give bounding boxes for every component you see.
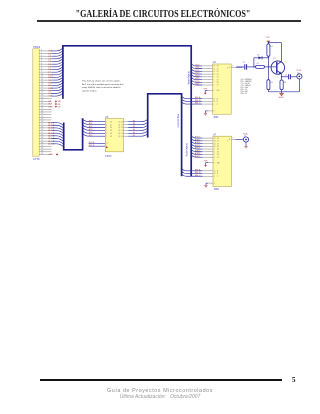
svg-text:D2: D2 [110, 127, 112, 129]
svg-text:As 1 out of the multiple-input: As 1 out of the multiple-input converter… [82, 83, 124, 86]
resistor R4 [280, 77, 286, 92]
svg-text:J2: J2 [244, 136, 246, 138]
svg-text:AD2: AD2 [89, 125, 93, 128]
svg-text:2: 2 [106, 121, 107, 123]
svg-text:R3: R3 [270, 82, 272, 84]
mux U6 VEE pin marker [204, 88, 213, 94]
svg-text:X1: X1 [217, 141, 219, 143]
svg-text:AUD6: AUD6 [195, 152, 201, 155]
svg-text:1: 1 [213, 77, 214, 79]
connector P1 (PRG2 header) [33, 45, 41, 161]
svg-text:AUD4: AUD4 [195, 147, 201, 150]
svg-text:R2: R2 [256, 63, 258, 65]
footer line 2 [0, 394, 320, 400]
svg-text:5: 5 [214, 151, 215, 153]
control bus (vertical from latch) [147, 94, 149, 138]
svg-text:SEL B: SEL B [195, 172, 201, 174]
svg-text:AD4: AD4 [89, 131, 93, 134]
svg-text:13: 13 [214, 138, 216, 140]
VCC power symbol [266, 37, 271, 43]
svg-text:AUD0: AUD0 [195, 136, 201, 139]
svg-text:D1: D1 [110, 124, 112, 126]
svg-text:15: 15 [121, 130, 123, 132]
mux U7 body [213, 133, 232, 191]
svg-text:Video Inputs: Video Inputs [187, 70, 190, 84]
svg-text:B: B [217, 173, 218, 175]
svg-text:11: 11 [213, 98, 215, 100]
input bus (right vertical) [190, 45, 192, 176]
svg-text:RD: RD [58, 104, 61, 106]
svg-text:LPT8: LPT8 [33, 157, 40, 161]
svg-text:Q4: Q4 [118, 133, 120, 135]
svg-text:X0: X0 [217, 138, 219, 140]
svg-text:10: 10 [214, 173, 216, 175]
control bus (right vertical) [181, 93, 183, 176]
svg-text:Q2: Q2 [118, 127, 120, 129]
svg-text:Control Bus: Control Bus [176, 113, 180, 127]
svg-text:4051: 4051 [214, 189, 220, 191]
svg-text:Q5: Q5 [118, 136, 120, 138]
svg-text:J1: J1 [297, 72, 299, 74]
svg-text:14: 14 [214, 141, 216, 143]
svg-text:X2: X2 [217, 143, 219, 145]
svg-text:AD3: AD3 [89, 128, 93, 131]
svg-text:5: 5 [213, 79, 214, 81]
svg-text:6: 6 [214, 162, 215, 164]
svg-text:X5: X5 [217, 79, 219, 81]
svg-text:GND: GND [48, 154, 53, 156]
svg-text:11: 11 [214, 171, 216, 173]
svg-text:Audio Inputs: Audio Inputs [186, 142, 189, 156]
svg-text:D3: D3 [110, 130, 112, 132]
svg-text:GND: GND [48, 106, 53, 108]
svg-text:6: 6 [213, 90, 214, 92]
svg-text:15: 15 [214, 143, 216, 145]
svg-text:AUD1: AUD1 [195, 138, 201, 141]
svg-text:4051: 4051 [213, 117, 219, 119]
mux U7 input wires [191, 136, 213, 158]
svg-text:C2: C2 [285, 74, 287, 76]
latch control wires RS0 RS1 [89, 142, 106, 147]
svg-text:4: 4 [106, 127, 107, 129]
svg-text:Q0: Q0 [118, 121, 120, 123]
svg-text:D0: D0 [110, 121, 112, 123]
svg-text:S2: S2 [133, 126, 135, 128]
svg-text:SEL C: SEL C [195, 175, 201, 177]
resistor R2 [254, 63, 276, 68]
svg-text:18: 18 [121, 121, 123, 123]
svg-text:S4: S4 [133, 132, 135, 134]
svg-text:X3: X3 [217, 146, 219, 148]
svg-text:X4: X4 [217, 149, 219, 151]
svg-text:S1: S1 [133, 123, 135, 125]
svg-text:RS0 B: RS0 B [89, 142, 95, 144]
svg-text:This front-up shows one circui: This front-up shows one circuit's option… [82, 80, 121, 83]
page title [41, 9, 286, 20]
svg-text:D1: D1 [257, 54, 259, 56]
svg-text:X5: X5 [217, 151, 219, 153]
video RCA jack J1 [297, 69, 302, 79]
svg-text:X7: X7 [217, 85, 219, 87]
data bus (top horizontal) [62, 45, 192, 47]
capacitor C1 [236, 62, 254, 70]
svg-text:5: 5 [106, 130, 107, 132]
svg-text:9: 9 [213, 104, 214, 106]
svg-text:VCC: VCC [266, 37, 271, 39]
svg-text:3: 3 [106, 124, 107, 126]
svg-text:4: 4 [213, 85, 214, 87]
resistor R1 [267, 43, 273, 67]
svg-text:specific modes.: specific modes. [82, 90, 97, 92]
svg-text:PRG2: PRG2 [33, 45, 41, 49]
port markers WR RD CS [48, 100, 61, 108]
footer line 1 [0, 388, 320, 394]
svg-text:11: 11 [106, 143, 108, 145]
connector P1 pins [39, 50, 51, 156]
svg-text:3: 3 [232, 66, 233, 68]
transistor Q1 [271, 43, 284, 77]
footer rule [40, 379, 282, 381]
svg-text:AUD3: AUD3 [195, 144, 201, 147]
svg-text:74573: 74573 [105, 156, 112, 158]
svg-text:16: 16 [121, 127, 123, 129]
svg-text:S5: S5 [133, 135, 135, 137]
svg-text:8: 8 [214, 183, 215, 185]
junction dots [253, 42, 282, 78]
mux U6 ground pin [204, 111, 213, 115]
latch U5 (74573) [105, 116, 124, 158]
mux U7 ground pin [204, 183, 213, 187]
svg-text:D4: D4 [110, 133, 112, 135]
mux U6 select wires from control bus [182, 96, 213, 105]
ground rail [268, 79, 299, 92]
svg-text:RS1 B: RS1 B [89, 145, 95, 147]
svg-text:X6: X6 [217, 82, 219, 84]
svg-text:14: 14 [213, 68, 215, 70]
wire VCC rail to collector [268, 42, 281, 44]
resistor R3 [267, 67, 273, 92]
svg-text:Q1: Q1 [118, 124, 120, 126]
svg-text:away WHICH select crossed to a: away WHICH select crossed to address [82, 86, 121, 89]
svg-text:AUD5: AUD5 [195, 149, 201, 152]
svg-text:B: B [217, 101, 218, 103]
svg-text:10: 10 [213, 101, 215, 103]
svg-text:AD5: AD5 [89, 134, 93, 137]
svg-text:SEL C: SEL C [195, 103, 201, 105]
audio RCA jack J2 [243, 132, 248, 142]
latch U5 output wires to control bus [124, 119, 148, 137]
svg-text:VID2: VID2 [195, 70, 200, 72]
svg-text:X7: X7 [217, 157, 219, 159]
svg-text:X4: X4 [217, 77, 219, 79]
svg-text:40: 40 [41, 153, 43, 155]
mux U6 output wire [231, 66, 242, 68]
svg-text:AD1: AD1 [89, 122, 93, 125]
data bus (vertical riser) [62, 46, 64, 99]
svg-text:X1: X1 [217, 68, 219, 70]
svg-text:S0: S0 [133, 120, 135, 122]
svg-text:15: 15 [213, 71, 215, 73]
mux U6 input wires [191, 64, 212, 86]
svg-text:9: 9 [214, 176, 215, 178]
audio jack ground [244, 142, 248, 148]
wire fan from P1 lower pins to address bus [52, 123, 64, 147]
diode D1 [254, 54, 269, 67]
svg-text:WR: WR [58, 101, 62, 103]
capacitor C2 [282, 74, 297, 79]
svg-text:7: 7 [106, 136, 107, 138]
svg-text:2: 2 [214, 154, 215, 156]
wire fan from address bus to latch U5 [83, 119, 106, 137]
control bus (horizontal) [147, 93, 183, 95]
svg-text:AUD2: AUD2 [195, 141, 201, 144]
ground symbol AGND [279, 92, 285, 99]
svg-text:3: 3 [233, 138, 234, 140]
svg-text:12: 12 [213, 74, 215, 76]
svg-text:U7: U7 [213, 133, 217, 136]
connector P1 pin labels [48, 51, 58, 157]
svg-text:R1: R1 [270, 46, 272, 48]
svg-text:AGND: AGND [279, 96, 285, 99]
svg-text:14: 14 [121, 133, 123, 135]
svg-text:13: 13 [121, 136, 123, 138]
svg-text:12: 12 [214, 146, 216, 148]
mux U7 output wire [232, 138, 244, 140]
component values list [241, 79, 252, 95]
mux U7 select wires from control bus [182, 168, 213, 177]
svg-text:SEL B: SEL B [195, 100, 201, 102]
note text block [82, 80, 124, 93]
svg-text:S3: S3 [133, 129, 135, 131]
title rule [37, 20, 301, 22]
svg-text:X0: X0 [217, 66, 219, 68]
svg-text:X3: X3 [217, 74, 219, 76]
svg-text:2: 2 [213, 82, 214, 84]
svg-text:D5: D5 [110, 136, 112, 138]
svg-text:INI: INI [48, 90, 51, 92]
svg-text:8: 8 [213, 111, 214, 113]
svg-text:AUD7: AUD7 [195, 155, 201, 158]
svg-text:SEL A: SEL A [195, 168, 201, 171]
svg-text:INT: INT [48, 101, 52, 103]
svg-text:R4: R4 [284, 82, 286, 84]
svg-text:Q3: Q3 [118, 130, 120, 132]
svg-text:CS: CS [58, 107, 61, 109]
svg-text:SEL A: SEL A [195, 96, 201, 99]
svg-text:R4 = 75: R4 = 75 [241, 93, 247, 95]
page number [292, 376, 296, 384]
svg-text:AD0: AD0 [89, 119, 93, 122]
svg-text:6: 6 [106, 133, 107, 135]
svg-text:13: 13 [213, 66, 215, 68]
mux U7 VEE pin marker [204, 161, 213, 167]
svg-text:VID5: VID5 [195, 78, 200, 80]
svg-text:C1: C1 [243, 62, 245, 64]
svg-text:X6: X6 [217, 154, 219, 156]
svg-text:U6: U6 [213, 61, 217, 64]
mux U6 body [213, 61, 232, 119]
address bus (U shape) [64, 118, 83, 150]
svg-text:4: 4 [214, 157, 215, 159]
svg-text:X2: X2 [217, 71, 219, 73]
svg-text:1: 1 [214, 149, 215, 151]
wire fan from P1 top pins to data bus [52, 48, 63, 96]
svg-text:17: 17 [121, 124, 123, 126]
svg-text:Q1: Q1 [273, 58, 276, 60]
svg-text:SLP: SLP [48, 104, 52, 106]
